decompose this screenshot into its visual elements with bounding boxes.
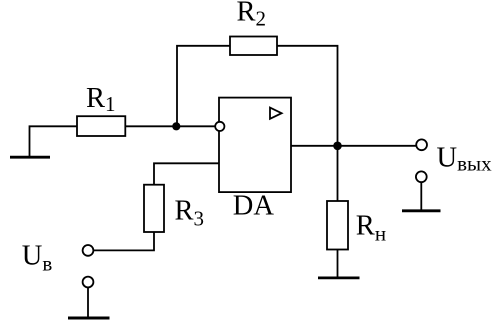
wire: output ground terminal down [420, 182, 422, 210]
svg-text:Uвых: Uвых [437, 143, 493, 176]
wire: left ground up to R1 [30, 126, 78, 157]
ground (right, at Uout) [402, 209, 441, 212]
svg-text:Uв: Uв [22, 240, 53, 275]
wire: R1 to inverting input circle [125, 125, 215, 127]
resistor R2 [230, 37, 277, 56]
op-amp amplification triangle symbol [270, 108, 282, 119]
terminal circle: input ground terminal [83, 277, 94, 288]
inverting input circle [215, 122, 224, 131]
ground (left, at R1 input) [10, 156, 50, 159]
op-amp U1 (DA) box [219, 98, 291, 193]
wire: R2 left branch from inverting node up and right to R2 [177, 46, 230, 127]
ground (under Rn) [318, 276, 360, 279]
resistor Rn (load) [327, 201, 348, 250]
wire: non-inverting input to R3 [154, 163, 219, 184]
ground (bottom left, input) [68, 317, 110, 320]
resistor R3 [144, 185, 164, 232]
svg-text:DA: DA [233, 190, 275, 221]
wire: op-amp output to Uout terminal [291, 145, 417, 147]
svg-text:Rн: Rн [356, 211, 386, 246]
wire: R3 bottom to input terminal [93, 232, 154, 250]
svg-text:R2: R2 [237, 0, 267, 31]
wire: Rn bottom to ground [337, 250, 339, 278]
svg-text:R3: R3 [175, 196, 205, 231]
node: junction dot at inverting input [172, 122, 180, 130]
terminal circle: output ground terminal [416, 171, 427, 182]
terminal circle: Uout [416, 139, 427, 150]
wire: input ground terminal down [87, 287, 89, 317]
node: junction dot at output [333, 142, 342, 151]
svg-text:R1: R1 [86, 83, 116, 116]
wire: R2 right branch down to output node and Rn [277, 46, 338, 201]
resistor R1 [77, 116, 125, 136]
terminal circle: Uin [83, 245, 94, 256]
